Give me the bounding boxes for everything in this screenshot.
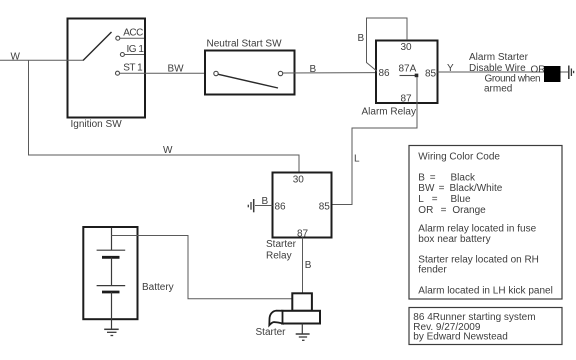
wire from alarm module to ground (561, 71, 569, 73)
svg-text:86: 86 (275, 202, 287, 213)
svg-text:=: = (439, 183, 445, 194)
svg-text:Wiring Color Code: Wiring Color Code (418, 152, 500, 163)
neutral start switch box SW2 (Neutral Start SW) (205, 51, 295, 95)
title box (409, 308, 562, 345)
wire B from starter relay 87 to starter solenoid (303, 238, 312, 294)
svg-text:BW: BW (168, 63, 185, 74)
battery cell symbol (97, 228, 126, 329)
svg-text:Relay: Relay (266, 251, 292, 262)
neutral start switch right contact (278, 71, 282, 75)
svg-text:Disable Wire: Disable Wire (469, 63, 526, 74)
svg-text:Alarm Relay: Alarm Relay (362, 107, 416, 118)
svg-text:Black/White: Black/White (450, 183, 503, 194)
ground (right of alarm module) (569, 66, 574, 80)
svg-text:86: 86 (379, 68, 391, 79)
svg-text:Alarm Starter: Alarm Starter (469, 52, 529, 63)
wire Y from alarm relay 85 to alarm module (438, 63, 545, 74)
svg-text:W: W (11, 52, 21, 63)
svg-text:87A: 87A (399, 64, 417, 75)
ground (battery) (104, 329, 119, 335)
svg-text:ST 1: ST 1 (123, 63, 143, 74)
svg-text:Battery: Battery (142, 282, 174, 293)
ignition switch lever (83, 32, 112, 61)
svg-text:B: B (262, 196, 269, 207)
label B = Black (418, 173, 476, 184)
label L = Blue (418, 194, 471, 205)
svg-text:L: L (354, 154, 360, 165)
neutral start switch left contact (214, 71, 218, 75)
svg-text:Alarm located in LH kick panel: Alarm located in LH kick panel (418, 286, 553, 297)
alarm relay box K1 (Alarm Relay) (376, 41, 438, 104)
wire from battery positive to starter solenoid (112, 236, 293, 299)
wire BW from ST 1 to neutral start switch (120, 63, 205, 74)
svg-text:Black: Black (451, 173, 476, 184)
svg-text:Y: Y (447, 63, 454, 74)
svg-text:L: L (418, 194, 424, 205)
svg-text:87: 87 (401, 94, 413, 105)
svg-text:fender: fender (418, 265, 447, 276)
svg-text:=: = (441, 205, 447, 216)
starter solenoid box (292, 293, 312, 311)
svg-text:by Edward Newstead: by Edward Newstead (413, 331, 508, 342)
svg-text:B: B (310, 64, 317, 75)
svg-text:box near battery: box near battery (418, 234, 490, 245)
wire L from alarm relay 87A down to starter relay 85 (332, 77, 418, 205)
svg-text:W: W (163, 145, 173, 156)
svg-text:B: B (305, 260, 312, 271)
ground (left of starter relay) (248, 199, 253, 212)
svg-text:Blue: Blue (451, 194, 471, 205)
svg-text:=: = (430, 173, 436, 184)
svg-text:armed: armed (484, 84, 512, 95)
battery box BT1 (83, 227, 137, 319)
svg-text:85: 85 (319, 202, 331, 213)
wire W from left edge to ignition switch pivot (0, 52, 83, 63)
neutral start switch lever (218, 74, 278, 88)
svg-text:ACC: ACC (123, 28, 143, 39)
wire B from starter relay 86 to ground (255, 196, 273, 207)
wire W from junction down and across to starter relay 30 (29, 60, 300, 171)
terminal IG 1 of ignition switch (120, 44, 144, 57)
ignition switch box SW1 (Ignition SW) (68, 19, 146, 118)
svg-text:B: B (358, 33, 365, 44)
svg-text:85: 85 (425, 69, 437, 80)
starter relay box K2 (Starter Relay) (273, 173, 332, 238)
wire B jumper from alarm relay 86 to pin 30 (358, 18, 408, 71)
ground (starter) (296, 324, 310, 341)
alarm module (black box) (544, 66, 561, 82)
wire B from neutral start switch to alarm relay 86 (283, 64, 376, 75)
svg-text:Starter: Starter (256, 327, 287, 338)
svg-text:=: = (432, 194, 438, 205)
wiring color code box (409, 146, 562, 300)
svg-text:Alarm relay located in fuse: Alarm relay located in fuse (418, 224, 536, 235)
label BW = Black/White (418, 183, 502, 194)
svg-text:30: 30 (293, 175, 305, 186)
starter pinion curl (269, 311, 282, 326)
svg-text:BW: BW (418, 183, 435, 194)
svg-text:IG 1: IG 1 (127, 44, 145, 55)
svg-text:B: B (418, 173, 425, 184)
svg-text:OR: OR (418, 205, 433, 216)
terminal ST 1 of ignition switch (116, 63, 144, 76)
svg-text:Neutral Start SW: Neutral Start SW (207, 38, 283, 49)
svg-text:Ignition SW: Ignition SW (71, 119, 123, 130)
alarm relay 87A contact bar and junction dot (400, 74, 419, 78)
terminal ACC of ignition switch (116, 28, 144, 41)
label OR = Orange (418, 205, 486, 216)
svg-text:Orange: Orange (452, 205, 486, 216)
starter motor body (282, 311, 320, 324)
svg-text:Starter: Starter (266, 239, 297, 250)
svg-text:30: 30 (401, 42, 413, 53)
